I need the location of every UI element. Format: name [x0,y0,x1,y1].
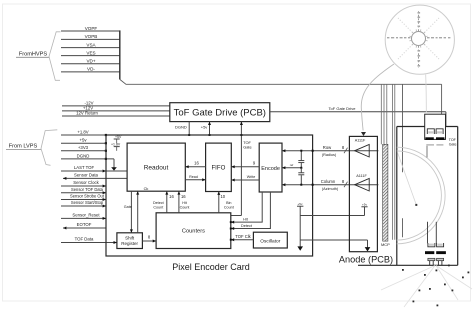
svg-text:FromHVPS: FromHVPS [19,52,48,58]
svg-text:VES: VES [86,50,95,55]
svg-text:ref: ref [290,163,294,167]
svg-text:VOPB: VOPB [85,34,98,39]
svg-text:+1.8V: +1.8V [111,143,121,147]
wire 12V Return [62,111,170,116]
wire Column (Azimuth) 8 [282,179,378,191]
node From LVPS label [6,130,57,166]
wire DGND to ToF Gate Drive [175,122,190,136]
wire +5v to Anode [300,215,364,217]
svg-text:VSA: VSA [86,42,96,47]
svg-text:16: 16 [194,161,199,166]
wire Vref to Encode [282,163,301,169]
svg-text:+5v: +5v [201,124,208,129]
wire +12V [62,106,170,111]
svg-text:+1.8V: +1.8V [77,129,88,134]
svg-text:Sensor TOF Data: Sensor TOF Data [71,187,104,192]
svg-text:(Azimuth): (Azimuth) [322,187,339,191]
svg-text:Gate: Gate [449,143,457,147]
leader circle to Anode [361,64,394,136]
wire Oscillator to Counters TOF Clk [230,234,254,241]
svg-text:Anode (PCB): Anode (PCB) [339,255,393,265]
block Encode [259,143,282,192]
svg-text:Counters: Counters [182,229,205,235]
wire Sensor Strobe Out [61,194,106,201]
wire HV drop 3 [386,84,388,144]
exit grid electrode left [428,243,435,247]
svg-text:Column: Column [321,179,336,184]
svg-text:VD+: VD+ [86,59,95,64]
svg-text:Pixel Encoder Card: Pixel Encoder Card [172,262,250,272]
wire Encode to FIFO 9 [231,161,259,169]
block ToF Gate Drive (PCB) [170,103,270,122]
MCP strip [381,144,390,247]
wire TOF Gate net [231,122,252,216]
TOF gate mesh left [426,144,434,146]
svg-text:Hit: Hit [182,201,187,205]
svg-text:Gate: Gate [124,205,132,209]
svg-text:A111F: A111F [355,139,366,143]
power flag +1.8V [111,143,121,151]
capacitor C1 Row to ref [298,150,304,169]
wire Counters to Readout Detect Count [153,191,175,213]
block Pixel Encoder Card [106,135,313,272]
wire exit grid leg right [435,222,437,243]
svg-text:EOTOF: EOTOF [77,222,92,227]
ion rays fan [381,266,472,308]
node FromHVPS label [16,32,61,81]
svg-text:+5v: +5v [79,138,87,143]
wire Counters to FIFO Bin Count [217,192,233,213]
svg-text:TOF Data: TOF Data [75,237,94,242]
power flag +5v right [297,202,303,216]
node HV bus junction bar [119,30,121,79]
wire Encode to FIFO Write [231,175,259,181]
wire VD- [61,67,120,72]
wire HV drop 1 [380,84,382,144]
wire LAST TOF [61,165,127,172]
wire Sensor TOF Data [61,187,106,194]
svg-text:Write: Write [247,175,256,179]
wire EOTOF [63,222,106,229]
svg-text:+5v: +5v [298,202,303,206]
svg-text:16: 16 [181,194,186,199]
svg-text:Sensor Data: Sensor Data [74,173,98,178]
node focal point [415,204,417,206]
wire +3V3 [61,145,107,152]
power flag +5v in Anode [361,203,367,216]
svg-text:Count: Count [153,205,163,209]
wire -12V [62,100,170,106]
svg-text:Read: Read [189,175,198,179]
analyzer dome arc inner [397,151,442,240]
ion trajectory [398,153,417,205]
wire Sensor_Reset [61,213,106,220]
TOF gate plate left [425,137,433,140]
wire VOPF [61,26,120,31]
wire Sensor Data [63,173,127,180]
wire Encode to Counters Hit [230,192,262,224]
wire Shift Register to Counters 8 [142,235,156,243]
ground arrow in Anode [365,240,371,252]
wire Counters to Readout Hit Count [177,191,189,213]
analyzer housing box [358,127,458,266]
wire HV drop 5 [394,84,396,240]
TOF gate housing [425,114,446,139]
svg-text:TOF: TOF [449,138,457,142]
svg-text:Bin: Bin [226,201,231,205]
wire VES [61,50,120,55]
wire Encode to Counters Detect [230,192,271,230]
ion dots scatter [402,265,469,307]
svg-text:10: 10 [220,194,225,199]
svg-text:Sensor Clock: Sensor Clock [73,180,99,185]
svg-text:Register: Register [121,241,138,246]
svg-text:Gate: Gate [243,145,251,150]
wire FIFO to Readout 16 [185,161,205,169]
svg-text:ToF Gate Drive: ToF Gate Drive [329,106,357,111]
wire ToF Gate Drive output [270,106,446,126]
svg-text:+5v: +5v [362,203,367,207]
block Shift Register [117,233,142,249]
ground DGND arrow [111,159,117,171]
leader circle to TOF gate [425,75,428,113]
svg-text:Readout: Readout [144,165,169,172]
wire Sensor Clock [61,180,106,187]
svg-text:Sensor_Reset: Sensor_Reset [72,213,100,218]
connector circle anode board layout [385,5,454,74]
wire Readout to Shift Register Gate [124,191,133,233]
svg-text:VD-: VD- [87,67,95,72]
op-amp A111F Row [355,139,370,157]
wire VOPB [61,34,120,39]
svg-text:Sensor Strobe Out: Sensor Strobe Out [70,194,105,199]
block FIFO [206,143,232,191]
TOF gate grid electrode right [436,129,443,134]
wire VD+ [61,59,120,64]
wire +5v to ToF Gate Drive [201,122,211,136]
exit plate left [425,251,434,254]
wire Row (Radius) 8 [282,145,378,157]
svg-text:Detect: Detect [241,224,253,228]
exit plate right [436,251,446,254]
svg-text:DGND: DGND [77,153,90,158]
block Oscillator [253,232,287,248]
exit mesh right with legs [437,258,444,265]
svg-text:12V Return: 12V Return [76,111,98,116]
wire DGND [61,153,114,160]
svg-text:Encode: Encode [261,166,280,172]
capacitor C2 ref to Column [298,168,304,186]
wire HV bus [120,79,442,114]
svg-text:VOPF: VOPF [85,26,98,31]
svg-text:Count: Count [224,205,234,209]
svg-text:+3V3: +3V3 [78,145,89,150]
wire +5v [61,138,107,145]
svg-text:ToF Gate Drive (PCB): ToF Gate Drive (PCB) [174,108,266,119]
wire +1.8V [61,129,107,136]
svg-text:Ck: Ck [144,186,149,191]
wire gate leg [426,146,428,158]
svg-text:From LVPS: From LVPS [9,144,38,150]
block Anode (PCB) [339,136,393,264]
svg-text:LAST TOF: LAST TOF [74,165,95,170]
svg-text:Sensor Start/Stop: Sensor Start/Stop [71,200,104,205]
exit mesh left with legs [428,258,435,265]
op-amp A111F Column [355,174,370,191]
svg-text:MCP: MCP [381,242,390,247]
svg-text:Detect: Detect [153,201,164,205]
wire HV drop 6 electrode [402,84,404,237]
svg-text:TOF Clk: TOF Clk [235,234,251,239]
svg-text:Oscillator: Oscillator [260,239,280,245]
svg-text:Count: Count [180,205,190,209]
TOF gate grid electrode left [427,129,434,134]
svg-text:FIFO: FIFO [211,165,225,172]
wire Readout to FIFO Read [185,175,205,181]
TOF gate mesh right [436,144,443,146]
wire Shift Register to Readout [136,191,139,233]
wire exit grid leg left [427,222,429,243]
exit grid electrode right [437,243,444,247]
wire Sensor Start/Stop [61,200,106,207]
svg-text:Row: Row [323,145,332,150]
block Readout [127,143,185,191]
power flag +5V [114,135,122,143]
wire VSA [61,42,120,47]
svg-text:16: 16 [169,194,174,199]
svg-text:(Radius): (Radius) [322,153,337,157]
ground arrow left [297,240,303,251]
block Counters [156,213,231,249]
wire HV drop 4 [392,84,394,240]
svg-text:A111F: A111F [356,174,367,178]
wire ground net to Anode [300,216,367,241]
node TOF Gate label [449,138,457,147]
wire TOF Data [61,237,117,244]
wire HV drop 2 [383,84,385,144]
TOF gate plate right [436,137,444,140]
analyzer dome arc outer [397,147,445,244]
svg-text:DGND: DGND [175,124,187,129]
